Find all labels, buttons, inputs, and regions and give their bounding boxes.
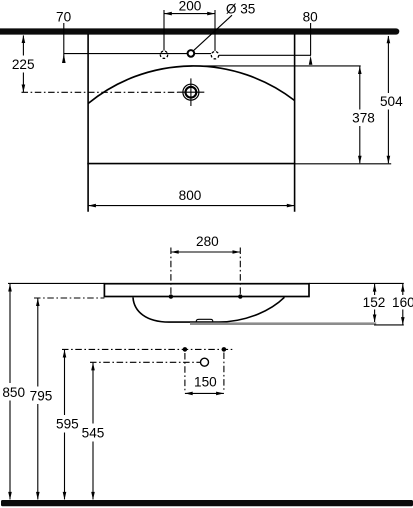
dim 200 extension left (163, 10, 165, 51)
dim 200 arrow right (207, 12, 215, 16)
svg-text:200: 200 (179, 0, 202, 13)
dim 595 arrow up (63, 350, 67, 358)
dim 800 line (88, 205, 295, 207)
svg-text:800: 800 (179, 188, 202, 203)
dim 504 arrow up (387, 36, 391, 44)
tap hole line (horizontal reference through tap holes) (64, 53, 211, 55)
dim 152 arrow down (373, 315, 377, 323)
svg-text:80: 80 (303, 10, 319, 25)
trap height centreline (545 ref) (90, 361, 200, 363)
extension of slab top to the right (152/160 ref) (309, 282, 404, 284)
dashed optional tap hole right (211, 52, 218, 59)
dim 850 line lower (9, 401, 11, 500)
dim 795 extension dash-dot to slab (34, 297, 104, 299)
dim 545 line lower (92, 442, 94, 500)
dim 850 arrow up (8, 284, 12, 292)
centreline up from right fixing dot (239, 248, 241, 295)
svg-text:545: 545 (82, 425, 105, 440)
dim 800 arrow right (287, 204, 295, 208)
dim 378 arrow up (358, 66, 362, 74)
Ø35 leader line (193, 15, 232, 51)
dim 200 line (164, 13, 215, 15)
dim 595 line lower (64, 433, 66, 500)
thin bottom extension line to 160 dim (374, 324, 404, 326)
dim 378 line upper (359, 67, 361, 110)
extension line at arc apex for 378 dim (191, 65, 361, 67)
dim 152 arrow up (373, 284, 377, 292)
svg-text:150: 150 (194, 374, 217, 389)
dim 795 line upper (37, 298, 39, 386)
drain crosshair horizontal (178, 91, 205, 93)
dim 225 arrow up (22, 35, 26, 43)
centreline down from right bolt (223, 353, 225, 392)
dim 504 arrow down (387, 156, 391, 164)
dim 595 line upper (64, 350, 66, 415)
extension line from basin front edge to right dimensions (295, 163, 392, 165)
fixing bolt dot right (222, 347, 227, 352)
overflow slot (196, 319, 212, 322)
dim 800 arrow left (88, 204, 96, 208)
waste outlet circle (201, 358, 209, 366)
drain crosshair vertical (190, 78, 192, 106)
fixing hole dot left on slab (169, 294, 173, 298)
drain hole symbol: outer circle (183, 84, 199, 100)
dim 280 arrow right (233, 250, 241, 254)
dim 160 arrow up (401, 284, 405, 292)
inner basin arc (88, 66, 295, 104)
basin front edge (bottom of rectangle) (87, 163, 295, 165)
svg-text:378: 378 (352, 110, 375, 125)
svg-text:595: 595 (56, 417, 79, 432)
svg-text:795: 795 (30, 388, 53, 403)
dim 70 line (63, 23, 65, 57)
dim 225 arrow down (22, 85, 26, 93)
dim 280 line (171, 251, 240, 253)
dim 850 line upper (9, 284, 11, 383)
dim 160 arrow down (401, 317, 405, 325)
svg-text:850: 850 (2, 385, 25, 400)
dim 160 line lower (402, 310, 404, 325)
dim 545 arrow up (91, 363, 95, 371)
svg-text:152: 152 (363, 295, 386, 310)
dim 152 line lower (374, 310, 376, 323)
dim 152 line upper (374, 284, 376, 295)
dim 850 arrow down (8, 492, 12, 500)
dim 545 arrow down (91, 492, 95, 500)
dashed optional tap hole left (160, 51, 167, 58)
wall bar (section of wall, plan view) (0, 28, 396, 34)
grey front rim band (190, 322, 376, 325)
dim 150 arrow right (216, 392, 224, 396)
svg-text:160: 160 (392, 295, 413, 310)
worktop/basin slab front view (104, 284, 309, 297)
centreline down from left bolt (184, 353, 186, 392)
svg-text:225: 225 (12, 57, 35, 72)
centreline dash-dot through drain (22, 91, 178, 93)
dim 545 line upper (92, 363, 94, 424)
bolt height centreline (595 ref) (62, 348, 233, 350)
dim 150 line (185, 392, 224, 394)
dim 795 arrow down (36, 492, 40, 500)
dim 160 line upper (402, 284, 404, 295)
dim 200 extension right (214, 10, 216, 51)
svg-text:70: 70 (56, 10, 72, 25)
dim 80 arrow up (below line) (309, 56, 313, 65)
dim 595 arrow down (63, 492, 67, 500)
fixing hole dot right on slab (238, 294, 242, 298)
extension of slab top to the left (850 ref) (8, 282, 104, 284)
dim 504 line lower (387, 110, 389, 164)
dim 200 arrow left (164, 12, 172, 16)
basin outline left edge (87, 34, 89, 212)
dim 795 line lower (37, 404, 39, 499)
floor bar (1, 500, 413, 506)
drain hole symbol: inner circle (186, 87, 197, 98)
svg-text:280: 280 (196, 234, 219, 249)
dim 378 arrow down (358, 156, 362, 164)
dim 378 line lower (359, 126, 361, 163)
fixing bolt dot left (183, 347, 188, 352)
svg-text:Ø 35: Ø 35 (226, 1, 255, 16)
main tap hole (solid circle) (188, 50, 195, 57)
svg-text:504: 504 (380, 94, 403, 109)
dim 70 arrow up (below tap line) (62, 54, 66, 63)
dim 225 line lower (22, 73, 24, 93)
dim 280 arrow left (171, 250, 179, 254)
dim 80 line (310, 23, 312, 55)
dim 795 arrow up (36, 298, 40, 306)
dim 225 line upper (22, 35, 24, 55)
centreline up from left fixing dot (170, 248, 172, 295)
bowl underside curve (133, 297, 284, 322)
dim 150 arrow left (185, 392, 193, 396)
dim 504 line upper (387, 36, 389, 93)
tap hole line right part (80 ref) (219, 54, 311, 56)
basin outline right edge (294, 34, 296, 212)
